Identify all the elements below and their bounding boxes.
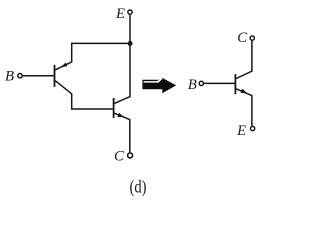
svg-text:C: C xyxy=(114,149,124,165)
svg-text:B: B xyxy=(188,77,197,93)
svg-text:E: E xyxy=(115,6,125,22)
svg-text:C: C xyxy=(237,30,247,46)
svg-text:E: E xyxy=(236,123,246,139)
svg-text:(d): (d) xyxy=(130,177,147,198)
svg-text:B: B xyxy=(5,69,14,85)
